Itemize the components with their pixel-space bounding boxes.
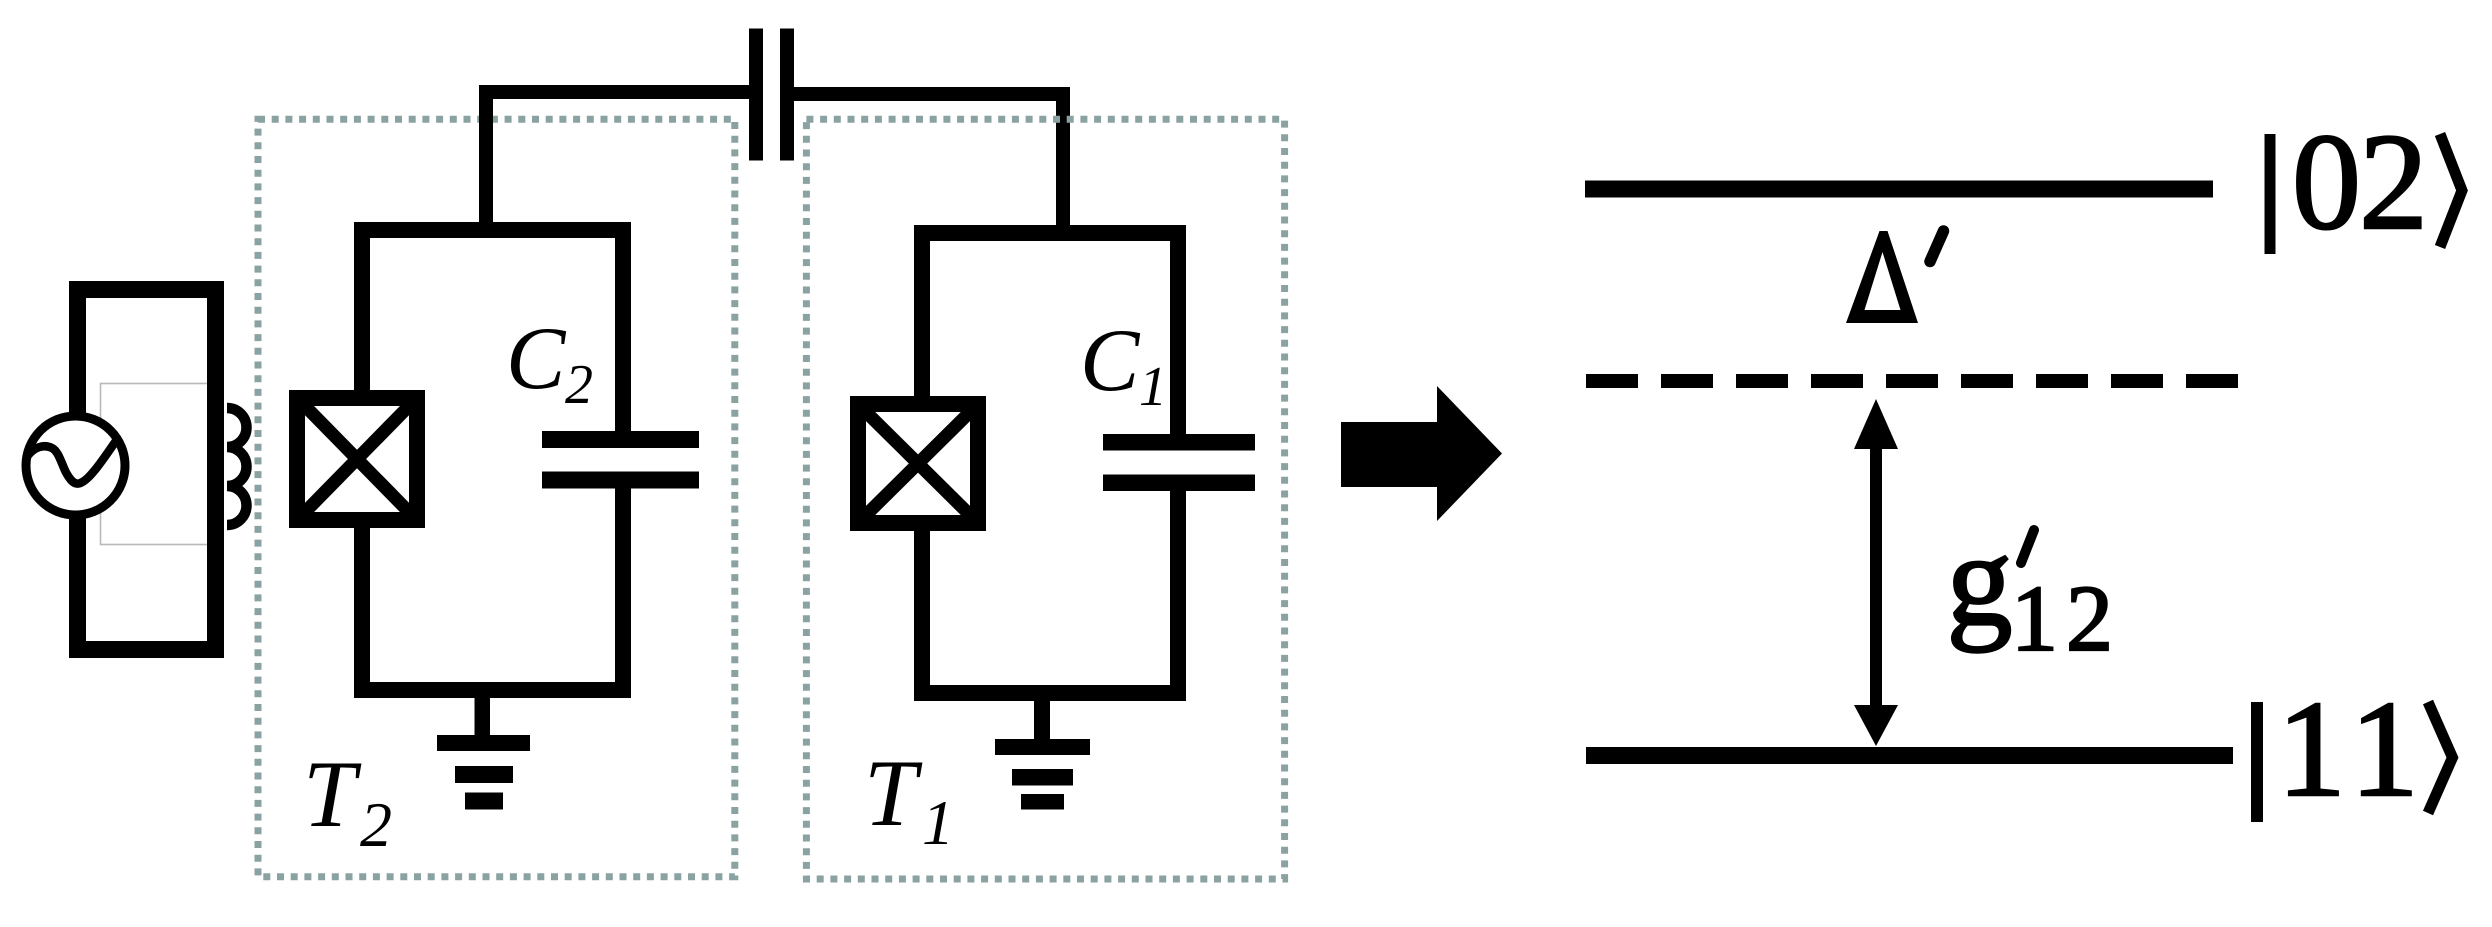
- drive loop wire: [78, 290, 216, 650]
- svg-text:1: 1: [1139, 356, 1167, 418]
- svg-text:2: 2: [360, 789, 392, 860]
- label T1: [864, 740, 954, 858]
- svg-text:C: C: [506, 310, 567, 408]
- detuning arrow g12 (double head): [1854, 399, 1898, 746]
- label g'12: [1947, 506, 2122, 671]
- svg-text:11: 11: [2277, 672, 2428, 825]
- dashed virtual level: [1586, 374, 2238, 388]
- svg-text:g: g: [1947, 506, 2013, 653]
- label T2: [303, 741, 392, 860]
- ground G1: [995, 701, 1090, 810]
- label C1: [1080, 312, 1167, 418]
- energy level |11> line: [1586, 747, 2233, 764]
- inductor L1: [227, 408, 247, 525]
- wire from T2 to coupling capacitor: [486, 92, 749, 230]
- svg-text:T: T: [303, 741, 362, 847]
- AC source V1: [26, 416, 125, 515]
- label |11>: [2251, 672, 2453, 825]
- coupling capacitor C12: [749, 29, 794, 161]
- wire from coupling capacitor to T1: [794, 94, 1063, 233]
- svg-text:C: C: [1080, 312, 1141, 410]
- flux-bias mutual coupling frame (thin): [101, 384, 212, 545]
- big arrow: [1341, 386, 1502, 521]
- energy level |02> line: [1585, 181, 2213, 198]
- label |02>: [2265, 105, 2463, 258]
- label Delta': [1846, 231, 1944, 323]
- transmon T1 loop wire: [922, 233, 1178, 693]
- svg-text:T: T: [864, 740, 923, 846]
- capacitor C2: [542, 431, 699, 489]
- label C2: [506, 310, 593, 416]
- ground G2: [437, 698, 530, 810]
- Josephson junction JJ2: [297, 398, 417, 520]
- capacitor C2 gap: [606, 447, 638, 474]
- transmon T2 loop wire: [362, 230, 623, 690]
- svg-text:2: 2: [565, 354, 593, 416]
- capacitor C1: [1103, 434, 1255, 491]
- svg-text:02: 02: [2292, 105, 2426, 258]
- Josephson junction JJ1: [858, 404, 978, 523]
- svg-text:1: 1: [922, 787, 954, 858]
- transmon box T1 (dotted): [806, 119, 1284, 879]
- transmon box T2 (dotted): [258, 119, 735, 877]
- capacitor C1 gap: [1163, 449, 1195, 477]
- svg-text:12: 12: [2011, 567, 2121, 671]
